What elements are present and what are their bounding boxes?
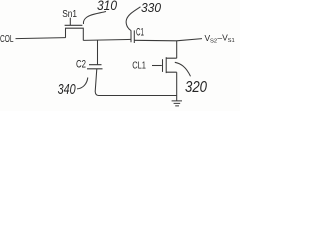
wire node to C2 branch [97, 40, 99, 65]
transistor 320 gate bar [162, 59, 164, 72]
transistor Sn1 gate bar [65, 24, 83, 26]
capacitor C1 plates [131, 30, 134, 43]
svg-text:C2: C2 [76, 59, 86, 71]
svg-text:330: 330 [141, 0, 162, 15]
svg-text:320: 320 [185, 79, 207, 96]
transistor 320 gate lead [152, 65, 162, 67]
wire transistor 310 to C1 [83, 39, 131, 40]
transistor 320 source lead [166, 72, 177, 95]
wire COL to transistor 310 [16, 38, 66, 39]
svg-text:CL1: CL1 [132, 61, 146, 72]
transistor 320 drain lead [166, 41, 177, 59]
capacitor C2 plates [87, 65, 103, 69]
ground [172, 96, 182, 106]
wire C2 down to bottom rail [95, 69, 98, 96]
svg-text:COL: COL [0, 33, 14, 45]
svg-text:340: 340 [58, 81, 76, 98]
svg-text:Sn1: Sn1 [62, 9, 77, 20]
svg-text:C1: C1 [136, 26, 144, 38]
bottom wire [99, 95, 177, 97]
transistor Sn1 (310) channel [65, 28, 84, 40]
transistor 320 channel [165, 57, 167, 73]
transistor Sn1 gate lead [69, 18, 71, 26]
leader line 310 [83, 12, 106, 25]
wire C1 to output node [134, 39, 202, 41]
svg-text:310: 310 [97, 0, 117, 13]
leader line 330 [126, 7, 140, 31]
leader line 340 [77, 78, 88, 89]
leader line 320 [175, 62, 191, 76]
